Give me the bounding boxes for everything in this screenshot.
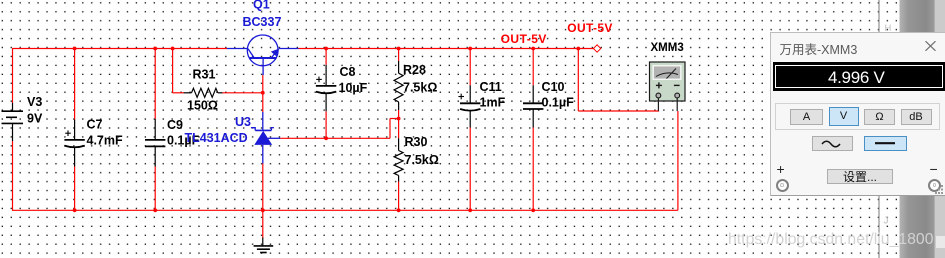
node OUT-5V connector diamond [593, 45, 600, 52]
node C11 top [468, 47, 472, 51]
wire U3 anode to bottom rail [262, 164, 264, 211]
wire C7 bottom branch [74, 167, 76, 211]
svg-text:TL431ACD: TL431ACD [185, 131, 248, 145]
button A [790, 109, 823, 126]
svg-text:OUT-5V: OUT-5V [501, 32, 547, 46]
svg-text:C11: C11 [480, 80, 502, 94]
svg-text:Q1: Q1 [253, 0, 270, 12]
node C9 top [153, 47, 157, 51]
wire R31 to Q1 base node [223, 92, 263, 94]
sheet frame line [878, 0, 880, 258]
node C8 top [324, 47, 328, 51]
transistor Q1 BC337 (NPN, base down, collector left, emitter right) [227, 35, 299, 75]
wire bottom rail [12, 209, 678, 211]
wire battery bottom branch [12, 141, 14, 210]
node C11 bottom [468, 208, 472, 212]
multimeter XMM3 front panel dialog [770, 32, 945, 196]
wire U3 ref net horizontal [280, 137, 390, 139]
ground [254, 238, 274, 253]
close button [925, 41, 936, 51]
node XMM3 top [576, 47, 580, 51]
svg-text:1mF: 1mF [480, 95, 506, 109]
wire battery top branch [12, 49, 14, 104]
wire ref net step vertical [389, 119, 391, 139]
capacitor C7 4.7mF (polarized) [64, 120, 84, 167]
resize grip [934, 184, 944, 194]
node C10 bottom [531, 208, 535, 212]
scrollbar band [900, 0, 935, 258]
wire R28 top branch [398, 49, 400, 61]
resistor R30 7.5kohm [394, 138, 403, 181]
svg-text:U3: U3 [235, 115, 251, 129]
node R30 bottom [397, 208, 401, 212]
node R28 / R30 / ref net [397, 117, 401, 121]
button DC (selected) [864, 136, 907, 152]
display [773, 62, 945, 91]
svg-text:9V: 9V [27, 112, 43, 126]
svg-text:4.7mF: 4.7mF [87, 134, 123, 148]
capacitor C8 10uF (polarized) [316, 65, 336, 112]
button AC (sine) [812, 136, 853, 152]
svg-text:R31: R31 [193, 68, 216, 82]
settings button [827, 169, 893, 185]
svg-text:OUT-5V: OUT-5V [567, 21, 612, 35]
wire C9 top branch [154, 49, 156, 119]
capacitor C9 0.1uF [145, 119, 165, 167]
minus terminal label [930, 161, 938, 177]
node ref net / C8 bottom [324, 136, 328, 140]
svg-text:0.1µF: 0.1µF [542, 95, 575, 109]
svg-text:BC337: BC337 [243, 15, 282, 29]
node C9 bottom [153, 208, 157, 212]
svg-text:C10: C10 [542, 80, 565, 94]
svg-text:J: J [884, 216, 889, 227]
svg-text:V3: V3 [27, 95, 42, 109]
wire multimeter + branch horizontal [578, 110, 659, 112]
button Ohm [864, 109, 895, 126]
svg-text:7.5kΩ: 7.5kΩ [403, 81, 437, 95]
wire C11 bottom branch [469, 128, 471, 211]
shunt regulator U3 TL431ACD [251, 112, 280, 164]
multimeter XMM3 icon [650, 62, 686, 111]
svg-text:C8: C8 [340, 65, 356, 79]
plus terminal label [777, 161, 785, 177]
wire C8 top branch [325, 49, 327, 65]
wire Q1 base down [262, 75, 264, 93]
svg-text:R30: R30 [405, 135, 428, 149]
mode group box [775, 103, 940, 131]
node C7 top [73, 47, 77, 51]
node R31 top [171, 47, 175, 51]
battery V3 9V [2, 103, 24, 141]
wire C10 bottom branch [532, 128, 534, 211]
wire R28-R30 middle node [398, 110, 400, 138]
wire multimeter + branch vertical [577, 49, 579, 112]
terminal - jack [928, 179, 941, 192]
svg-text:7.5kΩ: 7.5kΩ [405, 153, 439, 167]
wire ref net step horizontal [390, 118, 399, 120]
resistor R28 7.5kohm [394, 61, 403, 110]
wire multimeter - branch vertical [677, 111, 679, 210]
wire C8 bottom branch [325, 111, 327, 138]
wire C11 top branch [469, 49, 471, 86]
watermark [728, 231, 934, 249]
wire C7 top branch [74, 49, 76, 120]
svg-text:R28: R28 [403, 63, 426, 77]
svg-text:C7: C7 [87, 117, 103, 131]
terminal + jack [776, 179, 789, 192]
wire C9 bottom branch [154, 167, 156, 211]
wire R30 bottom branch [398, 182, 400, 211]
node ground tap [261, 208, 265, 212]
wire top rail right segment (Q1 emitter to OUT-5V connector) [299, 48, 594, 50]
pin XMM3 - lead [676, 98, 678, 111]
node C7 bottom [73, 208, 77, 212]
svg-text:150Ω: 150Ω [187, 99, 218, 113]
button dB [901, 109, 932, 126]
wire R31 feed vertical [172, 49, 174, 93]
button V (selected) [829, 107, 859, 126]
capacitor C10 0.1uF [523, 85, 543, 127]
capacitor C11 1mF (polarized) [458, 85, 480, 127]
wire to ground [262, 210, 264, 238]
node Q1 base / R31 / U3 [261, 91, 265, 95]
wire top rail left segment (battery to Q1 collector) [12, 48, 227, 50]
svg-text:10µF: 10µF [339, 81, 368, 95]
panel title [780, 39, 858, 58]
svg-text:C9: C9 [167, 118, 183, 132]
wire R31 left lead wire [173, 92, 184, 94]
wire base node to U3 cathode [262, 93, 264, 112]
resistor R31 150ohm [184, 88, 223, 97]
node C10 top [531, 47, 535, 51]
svg-text:XMM3: XMM3 [651, 42, 684, 54]
wire C10 top branch [532, 49, 534, 86]
node R28 top [397, 47, 401, 51]
pin XMM3 + lead [657, 98, 659, 111]
